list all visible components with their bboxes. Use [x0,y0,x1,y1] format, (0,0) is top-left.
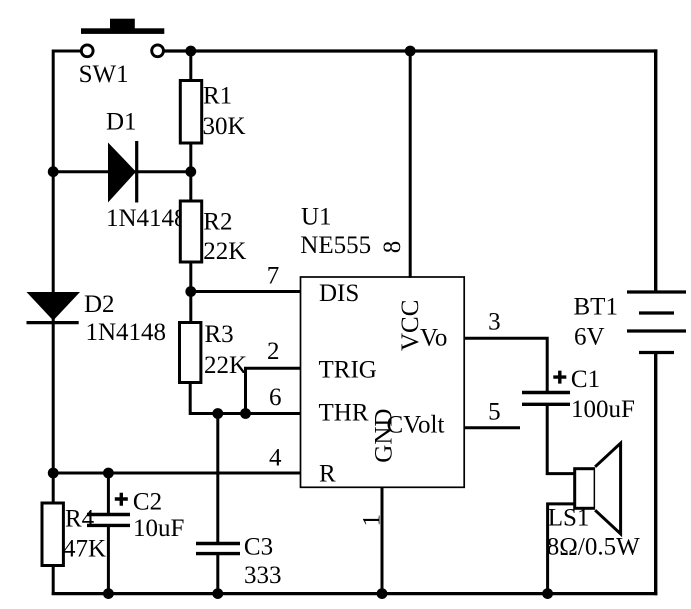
node: C2 / bottom rail [103,588,114,599]
svg-text:22K: 22K [204,352,247,379]
node: speaker / bottom rail [542,588,553,599]
wire: top-left stub to SW1 [53,50,81,53]
capacitor C3 plate bottom [196,552,240,555]
wire: R3 to THR wire [190,383,301,414]
svg-text:8: 8 [379,241,406,254]
svg-text:R: R [319,461,336,488]
svg-text:D1: D1 [106,109,137,136]
diode D2 cathode bar [27,321,79,324]
resistor R4 [42,503,63,566]
wire: R1 to D1 node [189,143,192,172]
node: C3 / bottom rail [212,588,223,599]
wire: DIS (pin 7) [191,290,302,293]
svg-text:47K: 47K [63,536,106,563]
wire: CVolt (pin 5) stub [464,426,520,429]
svg-text:C1: C1 [571,366,600,393]
wire: right rail upper (to battery) [654,49,657,291]
speaker LS1 cone [595,443,621,534]
resistor R3 [180,323,201,383]
op-amp/timer U1 box [301,277,465,487]
svg-text:LS1: LS1 [548,504,590,531]
node: C2 / R wire [103,468,114,479]
resistor R2 [180,201,201,262]
switch SW1 button bar [81,28,164,34]
wire: node to R3 [189,292,192,324]
speaker LS1 body [575,469,595,509]
svg-text:TRIG: TRIG [319,357,377,384]
node: GND / bottom rail [377,588,388,599]
wire: left rail [52,50,55,505]
wire: TRIG (pin 2) [246,368,302,413]
svg-text:GND: GND [371,409,398,463]
svg-text:C3: C3 [244,534,273,561]
svg-text:U1: U1 [301,203,332,230]
wire: speaker bottom terminal [548,504,575,595]
capacitor C2 plate top [87,513,130,516]
svg-text:10uF: 10uF [133,515,184,542]
capacitor C1 plate top [522,391,570,394]
svg-text:R4: R4 [65,506,95,533]
wire: C3 top [216,414,219,543]
node: junction top of R1 [185,46,196,57]
svg-text:SW1: SW1 [79,61,129,88]
wire: top rail from SW1 to top-right corner [164,49,657,52]
switch SW1 button bump [110,19,135,29]
C2 plus sign [115,493,128,506]
svg-text:5: 5 [488,399,501,426]
wire: right rail lower (battery to bottom) [654,353,657,595]
svg-text:BT1: BT1 [574,294,618,321]
svg-text:1: 1 [359,514,386,527]
capacitor C1 plate bottom [522,403,570,406]
svg-text:7: 7 [267,263,280,290]
node: left rail / R wire [48,468,59,479]
wire: left rail below R4 [52,565,55,595]
svg-text:3: 3 [488,309,501,336]
wire: C1 to speaker top terminal [547,406,575,474]
diode D1 [108,143,136,203]
svg-text:C2: C2 [133,489,162,516]
battery BT1 plate 2 (short) [639,311,674,314]
battery BT1 plate 4 (short) [639,351,674,354]
wire: GND (pin 1) [381,487,384,595]
capacitor C2 plate bottom [87,524,130,527]
svg-text:6: 6 [269,384,282,411]
switch SW1 right contact circle [152,45,164,57]
wire: top rail to R1 [189,51,192,81]
svg-text:22K: 22K [203,238,246,265]
svg-text:1N4148: 1N4148 [106,205,187,232]
node: THR / TRIG junction [240,408,251,419]
svg-text:D2: D2 [84,291,115,318]
capacitor C3 plate top [196,542,240,545]
svg-text:R3: R3 [205,321,234,348]
svg-text:R1: R1 [203,82,232,109]
node: left rail / D1 [48,166,59,177]
battery BT1 plate 1 (long) [627,290,686,293]
svg-text:DIS: DIS [319,280,359,307]
node: R2/R3/DIS junction [185,286,196,297]
wire: C2 top [107,473,110,514]
node: junction top rail / VCC [405,46,416,57]
svg-text:4: 4 [269,444,282,471]
svg-text:R2: R2 [203,209,232,236]
svg-text:333: 333 [244,562,282,589]
svg-text:6V: 6V [574,324,605,351]
svg-text:30K: 30K [203,113,246,140]
switch SW1 left contact circle [81,45,93,57]
svg-text:8Ω/0.5W: 8Ω/0.5W [547,533,640,560]
svg-text:2: 2 [267,338,280,365]
svg-text:100uF: 100uF [571,396,635,423]
wire: C2 bottom [107,527,110,596]
wire: R reset (pin 4) [53,472,301,475]
wire: C3 bottom [216,555,219,596]
wire: bottom rail [52,592,658,595]
diode D2 [27,292,81,321]
svg-text:VCC: VCC [397,300,424,351]
svg-text:THR: THR [319,400,369,427]
wire: R2 to DIS node [189,262,192,293]
node: R1-R2 / D1 [185,166,196,177]
wire: Vo (pin 3) to C1 [464,338,547,391]
wire: VCC (pin 8) [409,51,412,278]
svg-text:1N4148: 1N4148 [86,319,167,346]
resistor R1 [180,81,201,144]
diode D1 cathode bar [135,141,138,203]
svg-text:Vo: Vo [420,325,447,352]
battery BT1 plate 3 (long) [627,329,686,332]
wire: node to R2 [189,172,192,202]
wire: D1 horizontal [53,170,191,173]
C1 plus sign [553,371,566,384]
node: THR / C3 junction [212,408,223,419]
svg-text:NE555: NE555 [300,232,371,259]
